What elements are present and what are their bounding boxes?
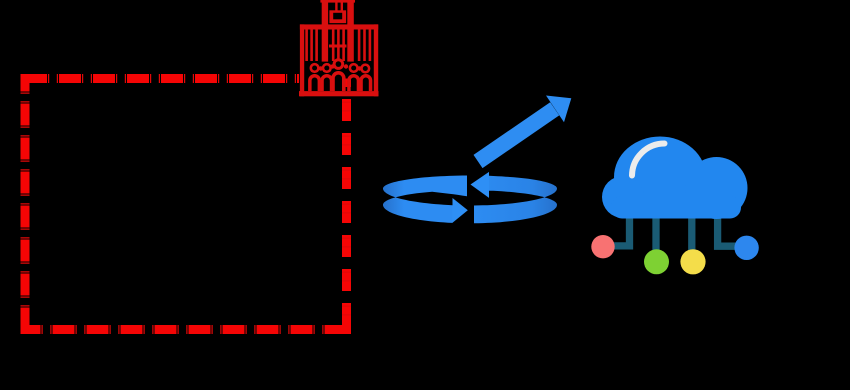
dash gap tick lines bbox=[25, 79, 347, 330]
dashed box corner squares bbox=[21, 74, 352, 334]
building tower balcony band bbox=[329, 45, 347, 48]
yellow node bbox=[680, 249, 705, 274]
building tower window box bbox=[329, 10, 346, 23]
blue node bbox=[734, 236, 758, 260]
dashed boundary box bottom edge bbox=[25, 325, 347, 334]
dashed boundary box top edge bbox=[25, 74, 299, 83]
red node bbox=[591, 235, 614, 258]
cycle arrow right band bbox=[474, 176, 557, 224]
dashed boundary box left edge bbox=[21, 79, 30, 330]
building tower right wall bbox=[347, 0, 354, 62]
building tower left wall bbox=[322, 0, 328, 62]
cloud highlight arc bbox=[632, 143, 665, 175]
building right wing columns bbox=[358, 30, 361, 62]
cloud body bbox=[602, 137, 748, 220]
green node bbox=[644, 249, 669, 274]
building tower window bbox=[333, 13, 342, 19]
cloud connector line to green node bbox=[652, 210, 659, 253]
building figures row: arched bodies bbox=[308, 74, 321, 91]
building right outer wall bbox=[374, 24, 378, 96]
building icon (red line-art, clipped at top) bbox=[299, 0, 379, 96]
building tower roof slab bbox=[320, 0, 355, 3]
building wings roofline bbox=[300, 24, 378, 29]
cloud connector line to blue node bbox=[718, 210, 736, 246]
building figures row: heads bbox=[310, 63, 320, 73]
building baseline bbox=[299, 91, 379, 96]
dashed boundary box right edge bbox=[342, 79, 351, 330]
building left wing columns bbox=[305, 30, 308, 62]
building tower columns bbox=[332, 30, 335, 62]
cycle arrow head pointing right bbox=[453, 198, 468, 223]
building background figure heads bbox=[319, 66, 323, 70]
cloud connector line to red node bbox=[614, 210, 630, 246]
cycle arrow left band bbox=[383, 176, 467, 223]
diagonal up-right arrow bbox=[474, 96, 572, 169]
cycle arrow head pointing left bbox=[471, 172, 490, 198]
building left outer wall bbox=[300, 24, 304, 96]
building tower antenna bars bbox=[335, 2, 337, 11]
cloud connector line to yellow node bbox=[688, 210, 695, 253]
